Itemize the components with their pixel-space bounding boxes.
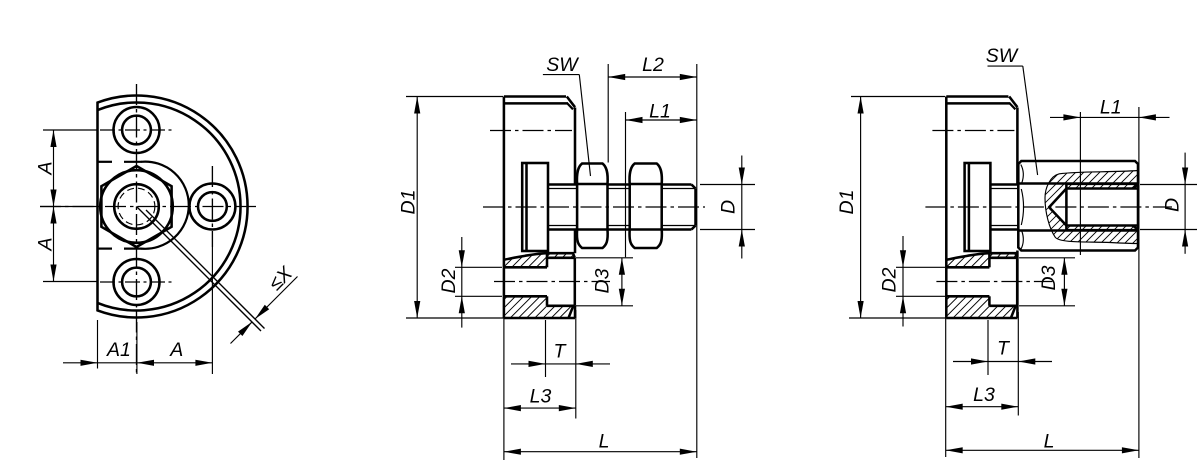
slot top edge [98, 161, 113, 163]
bushing step bottom [988, 296, 991, 306]
dim L right [946, 449, 1139, 451]
flange left edge [503, 97, 506, 319]
bushing weld break line [946, 253, 1017, 260]
bushing weld break line [504, 253, 575, 260]
flange top chamfer [567, 97, 575, 108]
hex sleeve outline [1018, 161, 1138, 251]
hex nut [577, 164, 608, 249]
dim L3 right [946, 406, 1019, 408]
bushing weld diagonal [569, 306, 574, 318]
svg-text:L1: L1 [1100, 97, 1122, 119]
right hole centerline [211, 166, 213, 247]
hex sleeve end arcs [1021, 165, 1024, 184]
upper hole centerline [490, 130, 572, 132]
bushing centerline [494, 281, 610, 283]
flange top edge [504, 95, 566, 98]
stud end chamfer [692, 185, 696, 189]
svg-text:L: L [599, 431, 610, 453]
flange chamfer ring line [946, 102, 1010, 105]
dim D2 [461, 237, 463, 267]
svg-text:A: A [35, 161, 57, 175]
bushing weld diagonal [1011, 306, 1016, 318]
svg-text:A: A [35, 237, 57, 251]
axis line B offset [146, 210, 265, 329]
bushing face top edge [547, 257, 575, 260]
stud end face [694, 189, 697, 226]
dim D1 [416, 97, 418, 319]
svg-text:L3: L3 [530, 386, 552, 408]
dim D3 [621, 258, 623, 306]
bushing step top [546, 253, 549, 267]
dim L3 [504, 407, 576, 409]
svg-text:D3: D3 [1038, 265, 1060, 290]
bushing bore top [946, 266, 989, 269]
horizontal centerline [40, 206, 258, 208]
svg-text:L: L [1044, 431, 1055, 453]
svg-text:D: D [1162, 198, 1184, 212]
dim L1 [626, 119, 697, 121]
hex nut [630, 164, 662, 249]
flange outer outline (arc + flat edge) [98, 96, 248, 318]
bushing bore bottom [946, 295, 989, 298]
dim L2 [608, 76, 697, 78]
hex sleeve face lines [1018, 182, 1138, 185]
bushing right face [1016, 258, 1019, 306]
svg-text:A: A [169, 339, 183, 361]
bushing bore bottom [504, 295, 547, 298]
washer disc [522, 163, 548, 251]
flange left edge [945, 97, 948, 319]
flange bottom edge [504, 317, 575, 320]
bushing step bottom [546, 296, 549, 306]
bottom hole centerline [100, 281, 175, 283]
flange right edge [1016, 108, 1019, 185]
mounting hole top outer [114, 107, 160, 153]
hex chamfer circle [100, 170, 173, 243]
thread between nuts [608, 183, 630, 186]
svg-text:D2: D2 [879, 267, 901, 292]
top hole centerline [100, 129, 175, 131]
SW leader right [988, 65, 1023, 67]
svg-text:SW: SW [546, 54, 579, 76]
thread end line [1065, 185, 1068, 230]
svg-text:L3: L3 [973, 384, 995, 406]
mounting hole bottom inner [122, 268, 151, 297]
dim D2 right [902, 236, 904, 267]
svg-text:L1: L1 [649, 101, 671, 123]
main centerline right [925, 206, 1172, 208]
bushing face bottom edge [547, 305, 575, 308]
hex boss outline [101, 166, 171, 247]
shank thread [548, 183, 577, 186]
dim T right [953, 361, 1052, 363]
bore walls [1066, 187, 1138, 190]
svg-text:D1: D1 [836, 190, 858, 215]
shank thread [990, 183, 1019, 186]
dim D [700, 184, 755, 186]
bushing face top edge [989, 257, 1017, 260]
dim D3 right [1063, 258, 1065, 306]
svg-text:D3: D3 [592, 268, 614, 293]
drill cone [1049, 189, 1066, 208]
svg-text:T: T [997, 338, 1011, 360]
dim T [511, 363, 610, 365]
flange top edge [946, 95, 1008, 98]
dim A upper vertical [53, 130, 55, 282]
SW leader [543, 74, 579, 76]
mounting hole right outer [189, 184, 235, 230]
dim A1 A bottom [63, 362, 212, 364]
entry chamfer [1133, 185, 1139, 189]
dim D right [1140, 184, 1197, 186]
mounting hole top inner [122, 116, 151, 145]
flange right edge [574, 108, 577, 185]
thread root lines [1066, 184, 1138, 186]
flange top chamfer [1009, 97, 1017, 108]
flange inner chamfer arc [98, 102, 241, 310]
slot bottom edge [98, 248, 113, 250]
bushing bore top [504, 266, 547, 269]
svg-text:D: D [718, 200, 740, 214]
flange bottom edge [946, 317, 1017, 320]
center bore circle [114, 184, 159, 229]
svg-text:D1: D1 [397, 190, 419, 215]
bushing step top [988, 253, 991, 267]
bushing face bottom edge [989, 305, 1017, 308]
svg-text:T: T [554, 341, 568, 363]
mounting hole bottom outer [114, 259, 160, 305]
axis line A 45deg [137, 207, 262, 332]
broken-out section break line [1045, 171, 1138, 244]
mounting hole right inner [198, 192, 227, 221]
dim leq X leader [255, 277, 298, 320]
thread circle dashed [118, 188, 155, 225]
vertical centerline [136, 84, 138, 374]
washer disc [965, 163, 991, 251]
svg-text:A1: A1 [106, 339, 131, 361]
stud end thread [662, 183, 692, 186]
svg-text:SW: SW [986, 45, 1019, 67]
bushing right face [574, 258, 577, 306]
dim L [504, 451, 697, 453]
dim D1 right [860, 97, 862, 319]
svg-text:L2: L2 [642, 54, 664, 76]
bushing centerline [936, 281, 1052, 283]
flange chamfer ring line [504, 102, 568, 105]
svg-text:D2: D2 [438, 268, 460, 293]
main centerline middle [483, 206, 705, 208]
washer disc arc [141, 162, 189, 249]
dim L1 right [1050, 116, 1080, 118]
upper hole centerline [932, 130, 1014, 132]
